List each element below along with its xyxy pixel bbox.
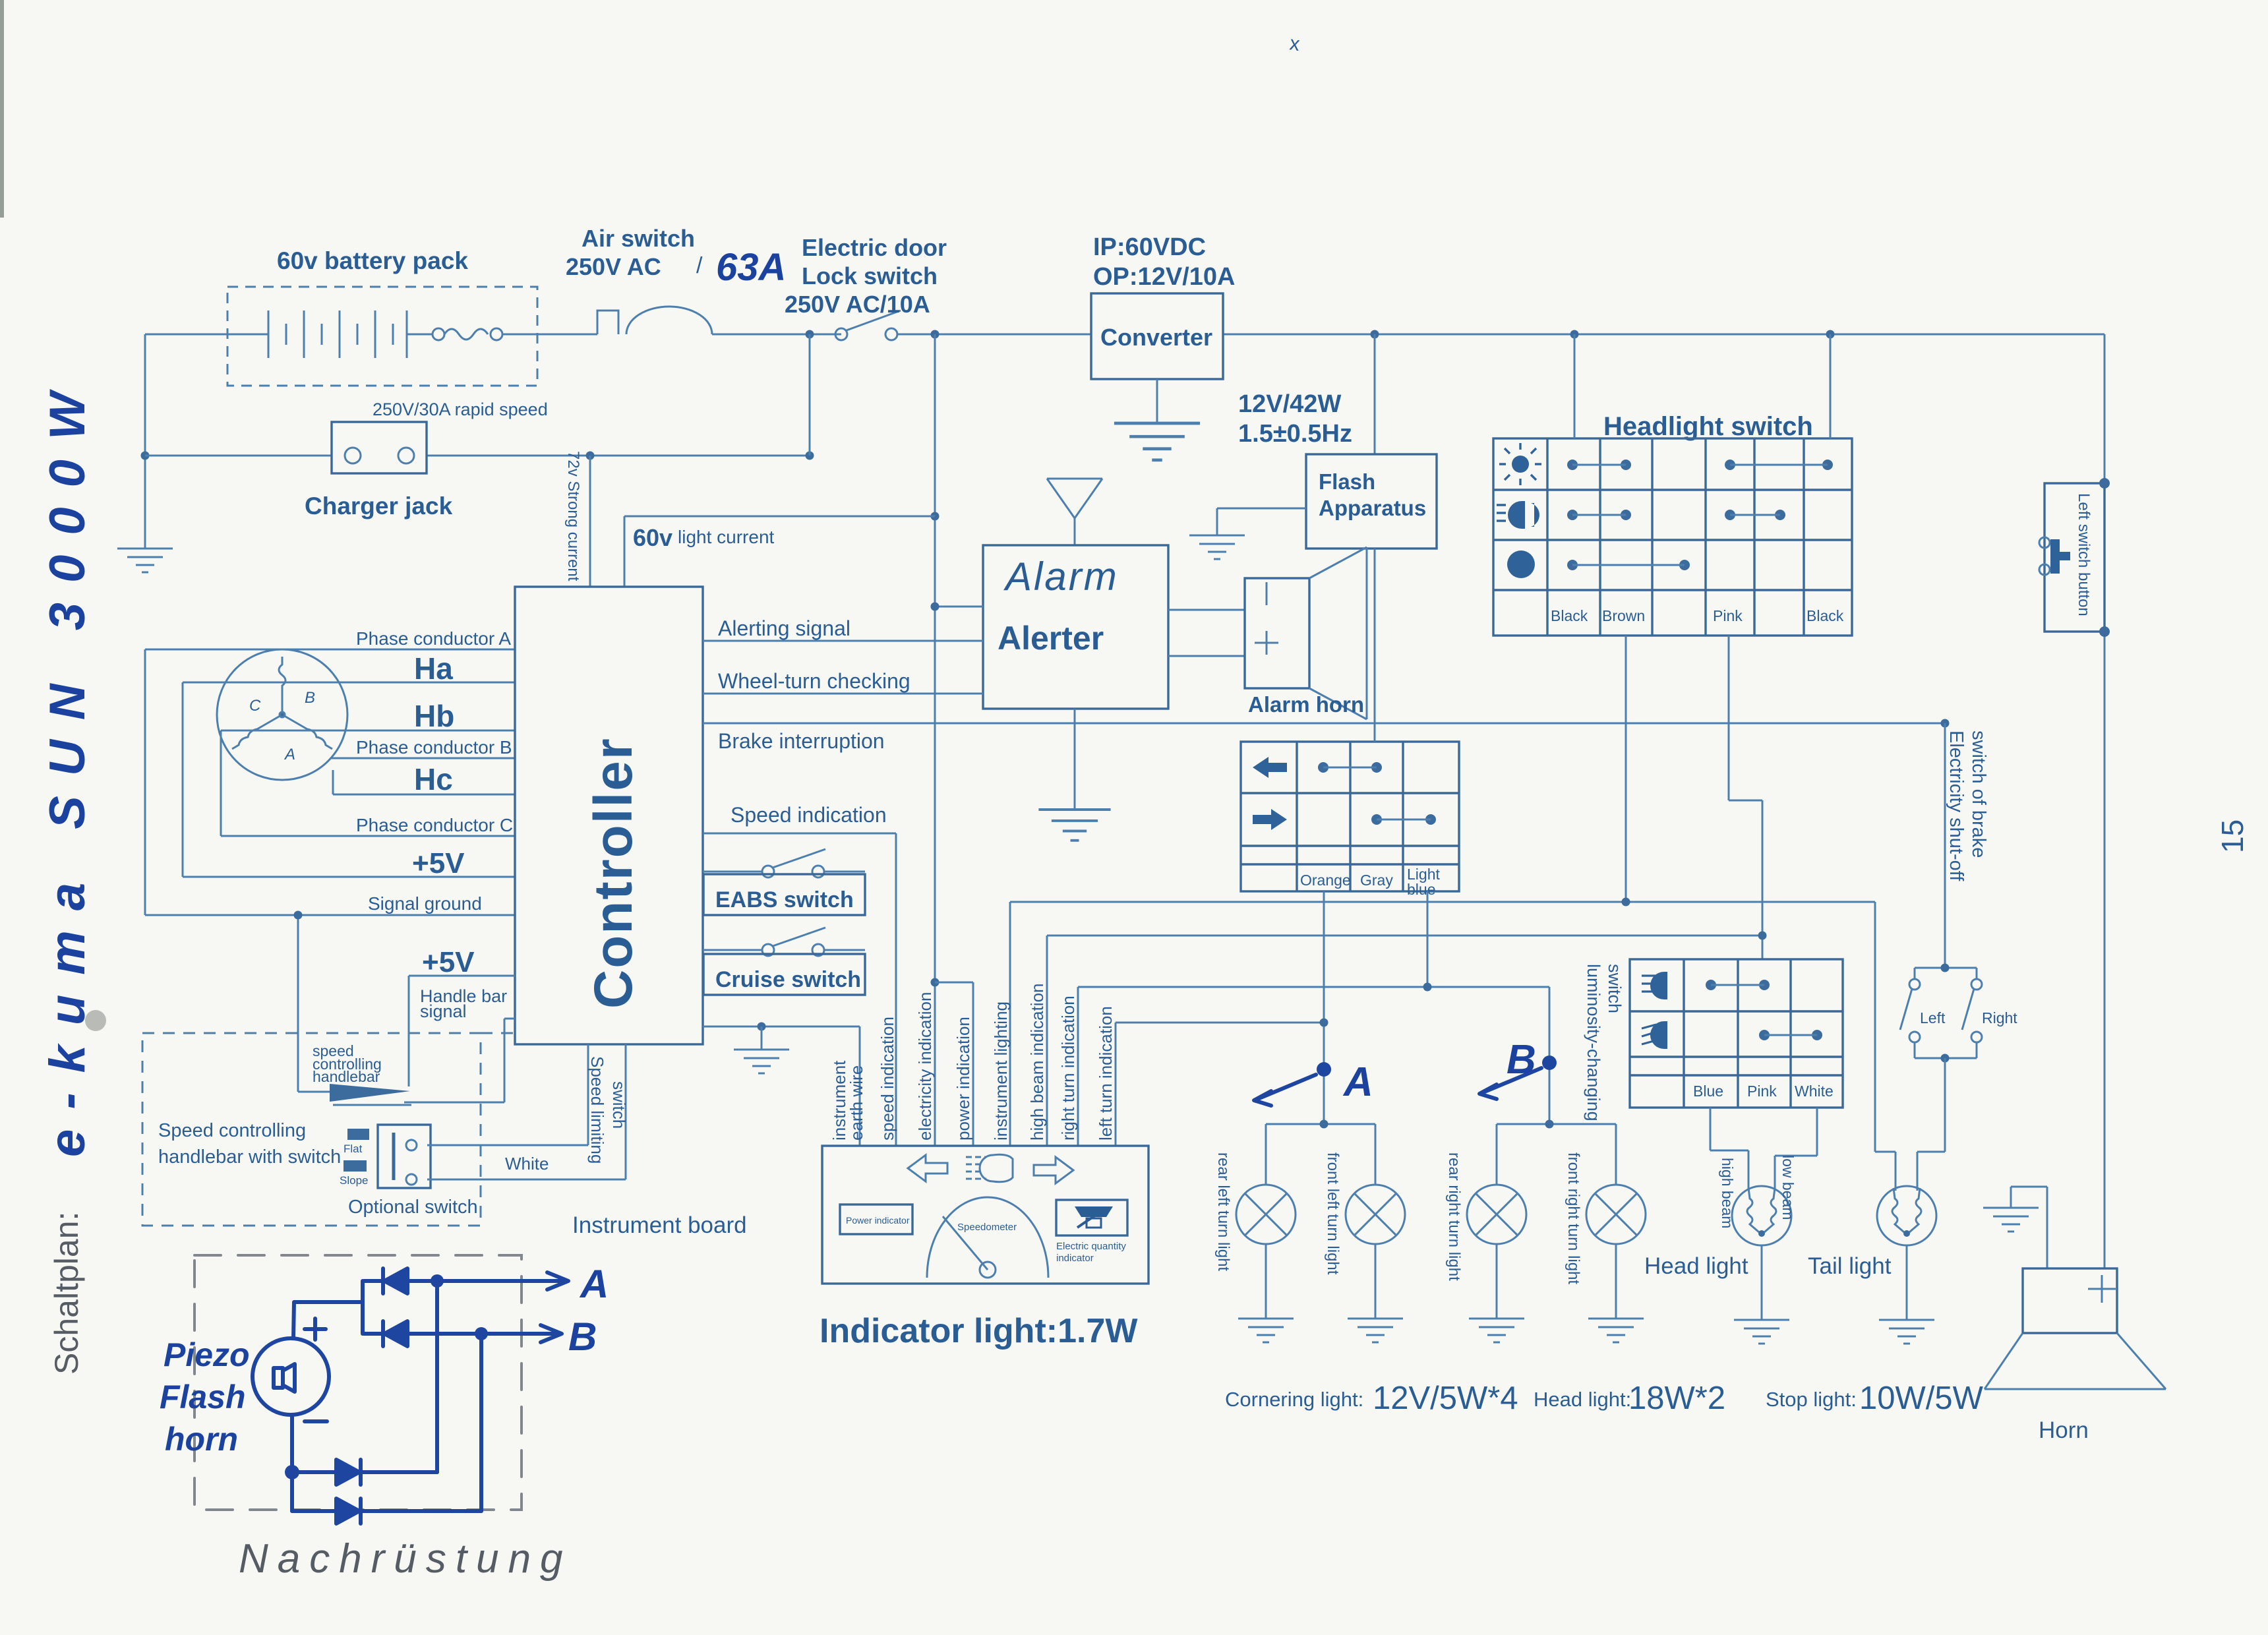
svg-text:right turn indication: right turn indication (1058, 996, 1078, 1141)
headlight switch contacts row2 (1567, 510, 1785, 520)
lamp: head light (two filaments) (1732, 1186, 1791, 1245)
svg-text:Horn: Horn (2039, 1417, 2089, 1443)
label: Head light: 18W*2 (1534, 1381, 1725, 1416)
svg-text:Charger jack: Charger jack (305, 492, 453, 520)
labels: Orange Gray Light blue (1300, 866, 1440, 898)
EABS switch label box (703, 874, 865, 915)
label: Flash Apparatus (1319, 469, 1426, 520)
label: 60v light current (633, 524, 775, 551)
label: Tail light (1808, 1253, 1892, 1279)
svg-text:indicator: indicator (1056, 1253, 1094, 1264)
wire: speed limiting switch return (427, 1044, 626, 1179)
label: rear left turn light (vertical) (1214, 1152, 1232, 1271)
label: Headlight switch (1603, 412, 1813, 441)
label: Converter (1100, 324, 1212, 351)
svg-text:signal: signal (420, 1001, 467, 1021)
svg-text:Apparatus: Apparatus (1319, 496, 1426, 520)
labels: Blue Pink White (1693, 1083, 1834, 1100)
wire: drop from bus to charger line (809, 334, 811, 456)
icon: high beam (luminosity) (1642, 972, 1667, 999)
svg-text:A: A (579, 1262, 609, 1306)
svg-text:high beam indication: high beam indication (1027, 984, 1047, 1141)
svg-text:Cornering light:: Cornering light: (1225, 1388, 1363, 1411)
icon: position lamp (bulb with rays) (1499, 443, 1541, 485)
svg-text:e-kuma SUN 3000W: e-kuma SUN 3000W (40, 372, 96, 1157)
speedometer gauge (927, 1197, 1048, 1278)
svg-text:Left switch button: Left switch button (2075, 493, 2093, 616)
svg-text:OP:12V/10A: OP:12V/10A (1093, 263, 1235, 291)
svg-text:left turn indication: left turn indication (1096, 1006, 1116, 1141)
wire: bus to flash apparatus (1374, 334, 1376, 454)
ground: flash apparatus (1189, 535, 1245, 559)
svg-text:Electric quantity: Electric quantity (1056, 1241, 1126, 1252)
wire: left bracket A-ground (144, 649, 146, 915)
EABS switch S2 (703, 849, 865, 877)
svg-text:White: White (1795, 1083, 1834, 1100)
svg-text:electricity indication: electricity indication (915, 992, 935, 1141)
svg-text:15: 15 (2215, 819, 2250, 853)
svg-text:10W/5W: 10W/5W (1859, 1381, 1984, 1416)
wire: brake switch feed (1944, 723, 1946, 968)
node B (handwritten) (1479, 1037, 1557, 1099)
handwritten 63A (716, 246, 786, 289)
electric quantity indicator box (1056, 1200, 1127, 1235)
label: 12V/42W 1.5±0.5Hz (1238, 390, 1352, 448)
fuse F1 250V/30A (433, 328, 537, 340)
label: Instrument board (572, 1212, 747, 1238)
junction: button box top (2099, 478, 2110, 489)
ground: battery negative (117, 549, 173, 572)
icon: battery gauge (1075, 1206, 1113, 1228)
label: electricity indication (vertical) (915, 992, 935, 1141)
svg-text:Phase conductor C: Phase conductor C (356, 815, 513, 835)
lamp: rear right turn light (1467, 1185, 1526, 1244)
ground: head light (1761, 1245, 1763, 1320)
icon: low beam (luminosity) (1642, 1021, 1667, 1049)
handwritten label: B (568, 1315, 597, 1359)
icon: right arrow (turn switch) (1253, 809, 1287, 830)
label: Wheel-turn checking (718, 669, 910, 693)
junction: button box bottom (2099, 626, 2110, 637)
junction: bus to headlight switch col1 (1570, 330, 1579, 339)
brake shut-off switch: Left / Right (1900, 968, 1982, 1058)
wire: brake interruption (to shut-off switch) (703, 723, 1945, 725)
label: Cornering light: 12V/5W*4 (1225, 1381, 1518, 1416)
svg-text:Head light:: Head light: (1534, 1388, 1631, 1411)
horn ground (2011, 1187, 2047, 1268)
svg-text:Brake interruption: Brake interruption (718, 729, 885, 753)
svg-text:Power indicator: Power indicator (846, 1215, 910, 1226)
svg-text:C: C (249, 697, 261, 715)
optional switch S4 (378, 1125, 431, 1188)
page number 15 (2215, 819, 2250, 853)
svg-text:Pink: Pink (1747, 1083, 1777, 1100)
wire: battery negative to left trunk (145, 334, 227, 549)
svg-text:front right turn light: front right turn light (1565, 1152, 1582, 1284)
svg-text:60v: 60v (633, 524, 672, 551)
svg-text:Electric door: Electric door (802, 234, 947, 261)
wire: phase conductor B (331, 758, 515, 759)
junction: bus at lock-switch drop (806, 330, 814, 339)
junction: 72v tap (586, 452, 595, 460)
hand wire: B return branch (479, 1334, 483, 1511)
label: Optional switch (348, 1197, 478, 1218)
wire: handle bar signal (404, 1019, 515, 1102)
svg-text:63A: 63A (716, 246, 786, 289)
label: Handle bar signal (420, 986, 507, 1021)
svg-text:handlebar with switch: handlebar with switch (158, 1146, 341, 1168)
label: Speed limiting switch (vertical) (587, 1056, 629, 1164)
wire: wheel-turn checking (703, 693, 983, 695)
svg-text:B: B (568, 1315, 597, 1359)
dashed enclosure: speed controlling handlebar with switch (142, 1033, 515, 1226)
label: left turn indication (vertical) (1096, 1006, 1116, 1141)
label: Ha (414, 651, 453, 686)
svg-text:Optional switch: Optional switch (348, 1197, 478, 1218)
wire: hall Ha (183, 682, 515, 684)
svg-text:18W*2: 18W*2 (1628, 1381, 1725, 1416)
lamp: front left turn light (1346, 1185, 1405, 1244)
handwritten side title: Schaltplan: e-kuma SUN 3000W (40, 372, 96, 1375)
controller box U3 (515, 587, 703, 1044)
junction: bus at alerter drop (931, 330, 940, 339)
svg-text:Cruise switch: Cruise switch (715, 967, 861, 992)
label: Head light (1644, 1253, 1748, 1279)
wire: flash apparatus to ground (1217, 508, 1306, 535)
diode D2 (to B) (364, 1321, 481, 1346)
junction: brake line end (1941, 719, 1950, 728)
turn signal switch table (1241, 742, 1459, 891)
junction: bus at flash apparatus (1371, 330, 1379, 339)
svg-text:Hb: Hb (414, 699, 454, 733)
label: +5V (412, 847, 465, 879)
svg-text:Left: Left (1920, 1009, 1946, 1026)
turn switch contacts row2 (1371, 814, 1436, 825)
Nachruestung dashed enclosure (pencil) (194, 1255, 522, 1510)
label: +5V (handlebar) (422, 946, 475, 978)
turn switch contacts row1 (1318, 762, 1382, 773)
wire: battery to air switch (537, 334, 597, 336)
label: Stop light: 10W/5W (1766, 1381, 1984, 1416)
label: power indication (vertical) (953, 1017, 973, 1141)
svg-text:+5V: +5V (422, 946, 475, 978)
svg-text:Black: Black (1551, 607, 1588, 624)
svg-text:Stop light:: Stop light: (1766, 1388, 1857, 1411)
wire: main 60V bus (897, 334, 2104, 336)
diode D4 (return from B) (292, 1499, 481, 1524)
svg-text:low beam: low beam (1779, 1155, 1797, 1220)
icon: high beam (966, 1154, 1013, 1182)
ground: instrument earth (734, 1050, 789, 1073)
label: Power indicator (846, 1215, 910, 1226)
svg-text:Converter: Converter (1100, 324, 1212, 351)
svg-text:high beam: high beam (1719, 1158, 1736, 1228)
wire: left bracket Hb-C (220, 730, 222, 836)
wire: flash apparatus to turn switch (1374, 549, 1376, 742)
svg-text:Controller: Controller (583, 737, 643, 1009)
grounds: cornering lamps (1266, 1244, 1616, 1319)
junction: B branch (1545, 1120, 1554, 1129)
diode D1 (to A) (364, 1268, 437, 1293)
svg-text:Instrument board: Instrument board (572, 1212, 747, 1238)
left switch button box (2044, 483, 2104, 632)
label: Left / Right (1920, 1009, 2017, 1026)
label: Indicator light:1.7W (820, 1312, 1138, 1350)
svg-text:switch: switch (1605, 964, 1625, 1013)
charger jack connector (332, 422, 427, 473)
wire: white wire to speed limiting switch (427, 1044, 588, 1145)
junction: brake switch bottom (1941, 1054, 1950, 1063)
wire: charger jack line (145, 455, 810, 457)
label: instrument earth wire (vertical) (829, 1060, 866, 1141)
ground: tail light (1906, 1245, 1908, 1320)
wire: +5V handlebar supply (409, 976, 515, 1086)
icon: left arrow (turn switch) (1253, 757, 1287, 778)
svg-text:Speed limiting: Speed limiting (587, 1056, 607, 1164)
wire: net B drop (1549, 987, 1551, 1124)
label: high beam indication (vertical) (1027, 984, 1047, 1141)
svg-text:Piezo: Piezo (164, 1336, 250, 1373)
label: Speed controlling handlebar with switch (158, 1120, 341, 1168)
wire: bus drop into alerter (935, 334, 983, 982)
label: speed controlling handlebar (313, 1042, 382, 1085)
electric door lock switch S1 (835, 311, 901, 340)
cruise switch label box (703, 954, 865, 995)
svg-text:Wheel-turn checking: Wheel-turn checking (718, 669, 910, 693)
wire: B branch to right cornering lamps (1497, 1124, 1616, 1185)
junction: A branch (1320, 1120, 1328, 1129)
svg-text:switch of brake: switch of brake (1968, 730, 1989, 858)
label: Brake interruption (718, 729, 885, 753)
wire: bus drop to headlight switch (black) (1574, 334, 1576, 438)
wire: brake switch to tail light (1917, 1058, 1945, 1191)
wire: high beam indication riser (1047, 936, 1762, 1146)
svg-text:Head light: Head light (1644, 1253, 1748, 1279)
node: A output dot (431, 1274, 444, 1288)
junction: signal ground tap (294, 911, 303, 920)
label: IP:60VDC OP:12V/10A (1093, 233, 1235, 291)
label: Electric quantity indicator (1056, 1241, 1126, 1264)
label: Air switch 250V AC (566, 225, 703, 280)
svg-text:luminosity-changing: luminosity-changing (1584, 964, 1603, 1121)
wire: bus drop to headlight switch (black 2) (1830, 334, 1832, 438)
junction: high beam indication tap (1758, 932, 1767, 940)
wire: alerter ground stem (1074, 709, 1076, 810)
instrument board box (822, 1146, 1149, 1284)
label: Phase conductor B (356, 737, 512, 758)
svg-text:Black: Black (1806, 607, 1844, 624)
label: front right turn light (vertical) (1565, 1152, 1582, 1284)
svg-text:White: White (505, 1154, 549, 1174)
svg-text:Phase conductor A: Phase conductor A (356, 628, 511, 649)
svg-text:Hc: Hc (414, 762, 453, 796)
handwritten plus terminal (305, 1319, 326, 1340)
luminosity contacts row1 (1706, 980, 1770, 990)
push button contacts (2039, 537, 2070, 575)
junction: left trunk / charger line (141, 452, 150, 460)
svg-text:front left turn light: front left turn light (1324, 1152, 1342, 1275)
svg-text:Alarm: Alarm (1003, 554, 1119, 599)
svg-text:Ha: Ha (414, 651, 453, 686)
label: Electric door Lock switch 250V AC/10A (785, 234, 947, 318)
svg-text:Alerter: Alerter (998, 620, 1104, 657)
svg-text:Brown: Brown (1602, 607, 1645, 624)
svg-text:250V AC: 250V AC (566, 253, 661, 280)
wire: blue output to head light high beam (1710, 1108, 1748, 1191)
power indicator box (840, 1204, 912, 1234)
svg-text:250V AC/10A: 250V AC/10A (785, 291, 930, 318)
headlight switch contacts row3 (1567, 560, 1690, 570)
handwritten label: A (579, 1262, 609, 1306)
wire: electricity indication into board (934, 982, 936, 1146)
svg-text:Tail light: Tail light (1808, 1253, 1892, 1279)
label: speed indication (vertical) (878, 1017, 897, 1141)
hand wire: B output arrow (481, 1325, 562, 1342)
svg-text:Signal ground: Signal ground (368, 893, 482, 914)
svg-text:horn: horn (165, 1421, 238, 1458)
svg-text:Flat: Flat (343, 1143, 363, 1155)
wire: orange output (net A) (1323, 891, 1325, 1124)
wire: lighting line to tail light (1875, 902, 1895, 1191)
handwritten label: Piezo Flash horn (160, 1336, 250, 1458)
label: motor phase letters (249, 689, 315, 763)
svg-text:72v Strong current: 72v Strong current (564, 451, 582, 581)
junction: electricity/power split (931, 978, 940, 987)
label: rear right turn light (vertical) (1445, 1152, 1463, 1281)
wire: pink output to luminosity switch (1729, 636, 1762, 959)
flash apparatus box (1306, 454, 1437, 549)
cruise switch S3 (703, 928, 865, 956)
svg-text:IP:60VDC: IP:60VDC (1093, 233, 1206, 261)
svg-text:Orange: Orange (1300, 872, 1351, 889)
wire: hall Hb (221, 730, 515, 732)
piezo flash horn (hand-drawn) (253, 1338, 329, 1415)
junction: charger line end at lock-switch drop (806, 452, 814, 460)
svg-text:handlebar: handlebar (313, 1068, 380, 1085)
label: Cruise switch (715, 967, 861, 992)
wire: signal ground drop to handlebar (298, 915, 331, 1092)
svg-text:EABS switch: EABS switch (715, 887, 854, 912)
icon: off (filled circle) (1507, 550, 1535, 578)
label: Alerter (998, 620, 1104, 657)
wire: 60v light current into controller (624, 516, 935, 587)
label: Phase conductor A (356, 628, 511, 649)
svg-text:rear right turn light: rear right turn light (1445, 1152, 1463, 1281)
svg-text:Blue: Blue (1693, 1083, 1723, 1100)
labels: Black Brown Pink Black (1551, 607, 1844, 624)
optional switch icons: Flat / Slope (340, 1129, 369, 1187)
junction: brown joins lighting line (1622, 898, 1630, 907)
hand wire: A output arrow (437, 1272, 568, 1290)
svg-text:B: B (1507, 1037, 1536, 1083)
svg-text:rear left turn light: rear left turn light (1214, 1152, 1232, 1271)
svg-text:Headlight switch: Headlight switch (1603, 412, 1813, 441)
node: minus junction dot (285, 1465, 299, 1479)
wire: left turn indication riser (1116, 1023, 1324, 1146)
junction: bus to headlight switch col6 (1826, 330, 1835, 339)
label: Hb (414, 699, 454, 733)
svg-text:Flash: Flash (1319, 469, 1375, 494)
label: high beam (vertical) (1719, 1158, 1736, 1228)
svg-text:light current: light current (678, 527, 775, 547)
svg-text:Speedometer: Speedometer (957, 1222, 1017, 1233)
label: low beam (vertical) (1779, 1155, 1797, 1220)
label: 250V/30A rapid speed (373, 400, 548, 419)
wire: phase conductor A (145, 649, 515, 651)
label: right turn indication (vertical) (1058, 996, 1078, 1141)
junction: left turn indication tap (1320, 1019, 1328, 1027)
svg-text:blue: blue (1407, 881, 1435, 898)
svg-text:Nachrüstung: Nachrüstung (239, 1536, 572, 1582)
battery cells BT1 (227, 311, 432, 358)
horn LS2 (1984, 1268, 2166, 1389)
svg-text:power indication: power indication (953, 1017, 973, 1141)
svg-text:Pink: Pink (1713, 607, 1743, 624)
wire: alerting signal (703, 640, 983, 642)
wire: A branch to left cornering lamps (1266, 1124, 1375, 1185)
label: front left turn light (vertical) (1324, 1152, 1342, 1275)
icon: left turn arrow (908, 1155, 947, 1181)
headlight switch table (1493, 438, 1852, 636)
label: Electricity shut-off switch of brake (vertical) (1946, 730, 1989, 881)
junction: brake switch top (1941, 964, 1950, 972)
headlight switch contacts row1 (1567, 460, 1833, 470)
wire: brown output to tail light line (1625, 636, 1627, 902)
handwritten label: Alarm (1003, 554, 1119, 599)
alarm alerter box U2 (983, 545, 1168, 709)
svg-text:12V/42W: 12V/42W (1238, 390, 1341, 418)
label: Signal ground (368, 893, 482, 914)
svg-text:12V/5W*4: 12V/5W*4 (1373, 1381, 1518, 1416)
label: Left switch button (vertical) (2075, 493, 2093, 616)
svg-text:250V/30A rapid speed: 250V/30A rapid speed (373, 400, 548, 419)
svg-text:Right: Right (1982, 1009, 2017, 1026)
svg-text:Slope: Slope (340, 1174, 368, 1187)
antenna of alarm alerter (1047, 479, 1102, 545)
air switch QF1 (597, 307, 841, 334)
lamp: rear left turn light (1236, 1185, 1296, 1244)
luminosity-changing switch table (1630, 959, 1843, 1108)
label: Alerting signal (718, 616, 850, 640)
wire: left bracket Ha-5V (182, 682, 184, 877)
icon: headlight beams (1497, 501, 1539, 529)
svg-text:60v battery pack: 60v battery pack (277, 247, 468, 274)
label: White (505, 1154, 549, 1174)
svg-text:Alerting signal: Alerting signal (718, 616, 850, 640)
lamp: front right turn light (1586, 1185, 1646, 1244)
wire: right turn indication riser (1078, 987, 1549, 1146)
ground: alerter (1038, 810, 1110, 841)
node: B output dot (475, 1327, 488, 1340)
svg-text:Speed indication: Speed indication (731, 803, 887, 827)
label: Hc (414, 762, 453, 796)
motor M1 (217, 649, 347, 780)
svg-text:1.5±0.5Hz: 1.5±0.5Hz (1238, 420, 1352, 448)
svg-text:Electricity shut-off: Electricity shut-off (1946, 730, 1967, 881)
battery pack dashed enclosure (227, 287, 537, 386)
label: Charger jack (305, 492, 453, 520)
wire: 72v strong current into controller (589, 456, 591, 587)
wire: hall Hc (333, 770, 515, 794)
wire: +5V hall supply (183, 876, 515, 878)
label: Phase conductor C (356, 815, 513, 835)
svg-text:Gray: Gray (1360, 872, 1393, 889)
label: Alarm horn (1248, 692, 1364, 717)
wire: earth ground stem (761, 1026, 763, 1050)
label: 72v Strong current (vertical) (564, 451, 582, 581)
svg-text:switch: switch (609, 1081, 629, 1129)
svg-text:Flash: Flash (160, 1379, 246, 1415)
